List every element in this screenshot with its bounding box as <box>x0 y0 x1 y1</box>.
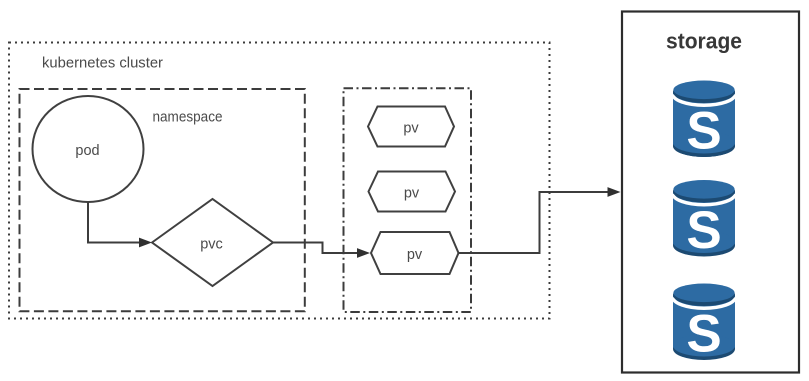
svg-text:kubernetes cluster: kubernetes cluster <box>42 56 163 72</box>
arrowhead: into pvc <box>139 238 152 248</box>
hexagon: pv 2 <box>369 172 456 212</box>
dash-dot box: pv pool boundary <box>344 88 472 312</box>
wire: pod to pvc (down then right) <box>88 202 140 243</box>
label: kubernetes cluster <box>42 56 163 72</box>
label: namespace <box>153 110 223 126</box>
arrowhead: into pv <box>357 248 370 258</box>
wire: pv to storage (right, up, right) <box>459 192 609 253</box>
solid box: storage <box>622 12 799 373</box>
outer dotted box: kubernetes cluster boundary <box>9 43 550 319</box>
storage cylinder 3 <box>673 284 735 364</box>
diamond: pvc <box>152 199 273 286</box>
storage cylinder 2 <box>673 180 735 260</box>
svg-text:S: S <box>686 201 721 260</box>
svg-text:storage: storage <box>666 29 742 54</box>
label: storage (bold title) <box>666 29 742 54</box>
dashed box: namespace boundary <box>20 89 305 311</box>
svg-text:pv: pv <box>403 120 419 136</box>
hexagon: pv 3 <box>371 232 459 274</box>
svg-text:pv: pv <box>407 247 423 263</box>
arrowhead: into storage box <box>608 187 621 197</box>
hexagon: pv 1 <box>368 107 454 147</box>
svg-text:namespace: namespace <box>153 110 223 126</box>
svg-text:pv: pv <box>404 185 420 201</box>
storage cylinder 1 <box>673 81 735 161</box>
wire: pvc to pv (right, jog down, right) <box>273 243 358 254</box>
svg-text:S: S <box>686 305 721 364</box>
circle: pod <box>33 96 144 202</box>
svg-text:pvc: pvc <box>200 236 223 252</box>
svg-text:pod: pod <box>75 143 99 159</box>
svg-text:S: S <box>686 102 721 161</box>
